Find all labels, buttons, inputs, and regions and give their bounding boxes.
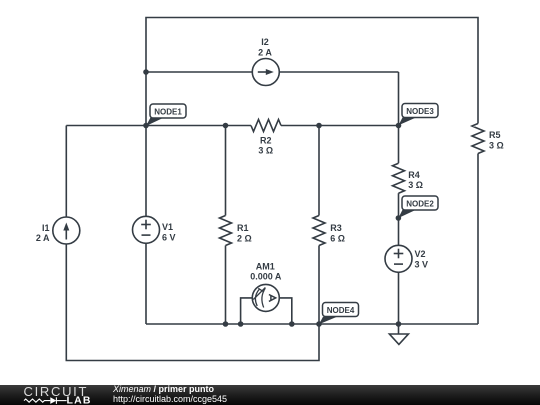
svg-text:3 Ω: 3 Ω (258, 146, 273, 156)
wire NODE1 row right (281, 125, 399, 127)
junction R3 top (316, 123, 322, 129)
wire I1 bottom loop (66, 244, 319, 361)
wire V1 top lead (145, 126, 147, 217)
footer bar (0, 385, 540, 405)
svg-text:V2: V2 (415, 249, 426, 259)
svg-text:3 Ω: 3 Ω (489, 141, 504, 151)
node NODE3 (399, 104, 439, 126)
ammeter AM1 (250, 261, 282, 311)
svg-text:NODE2: NODE2 (406, 200, 434, 209)
wire R1 bottom lead (225, 246, 227, 325)
current source I1 (36, 217, 80, 244)
voltage source V2 (385, 245, 428, 272)
svg-text:0.000 A: 0.000 A (250, 272, 282, 282)
junction R1 bottom (223, 321, 229, 327)
node NODE1 (146, 104, 186, 126)
svg-text:R1: R1 (237, 223, 249, 233)
wire R4 bottom lead to V2 (398, 193, 400, 245)
junction ground (396, 321, 402, 327)
junction NODE1 (143, 123, 149, 129)
svg-text:NODE3: NODE3 (406, 107, 434, 116)
junction NODE3 (396, 123, 402, 129)
wire I2 row left (146, 71, 252, 73)
resistor R1 (220, 216, 252, 246)
CircuitLab logo (0, 385, 110, 405)
junction NODE2 (396, 215, 402, 221)
svg-text:6 Ω: 6 Ω (330, 233, 345, 243)
wire top loop left rail (146, 18, 478, 126)
svg-text:NODE1: NODE1 (154, 108, 182, 117)
resistor R2 (251, 120, 281, 156)
svg-text:I2: I2 (261, 37, 269, 47)
resistor R4 (393, 163, 424, 193)
wire I2 row right (279, 71, 398, 73)
current source I2 (252, 37, 279, 85)
wire V1 bottom lead (145, 243, 147, 324)
voltage source V1 (133, 216, 176, 243)
junction at left rail / I2 row (143, 69, 149, 75)
svg-text:6 V: 6 V (162, 232, 176, 242)
wire R3 top lead (318, 126, 320, 216)
wire R5 bottom lead (477, 154, 479, 325)
svg-text:LAB: LAB (67, 395, 92, 405)
svg-text:2 Ω: 2 Ω (237, 233, 252, 243)
svg-text:NODE4: NODE4 (327, 306, 355, 315)
junction NODE4 (316, 321, 322, 327)
wire NODE1 row left (66, 125, 251, 127)
svg-text:2 A: 2 A (258, 48, 272, 58)
svg-text:R5: R5 (489, 130, 501, 140)
wire V2 bottom lead (398, 272, 400, 324)
svg-text:3 V: 3 V (415, 259, 429, 269)
svg-text:3 Ω: 3 Ω (408, 180, 423, 190)
wire AM1 left lead (241, 298, 253, 324)
wire AM1 right lead (279, 298, 292, 324)
svg-text:2 A: 2 A (36, 233, 50, 243)
wire R3 bottom lead (318, 246, 320, 325)
resistor R3 (313, 216, 345, 246)
junction AM1 right (289, 321, 295, 327)
ground (389, 324, 408, 344)
wire R1 top lead (225, 126, 227, 216)
svg-text:R3: R3 (330, 223, 342, 233)
wire NODE3 column (398, 72, 400, 163)
junction R1 top (223, 123, 229, 129)
footer text (113, 385, 227, 404)
wire bottom row (146, 323, 478, 325)
node NODE4 (319, 303, 359, 325)
wire I1 top lead (65, 126, 67, 218)
svg-text:AM1: AM1 (256, 261, 275, 271)
resistor R5 (472, 124, 504, 154)
svg-text:R4: R4 (408, 170, 420, 180)
svg-text:R2: R2 (260, 135, 272, 145)
svg-text:I1: I1 (42, 223, 50, 233)
node NODE2 (398, 196, 438, 218)
svg-text:V1: V1 (162, 222, 173, 232)
junction AM1 left (238, 321, 244, 327)
